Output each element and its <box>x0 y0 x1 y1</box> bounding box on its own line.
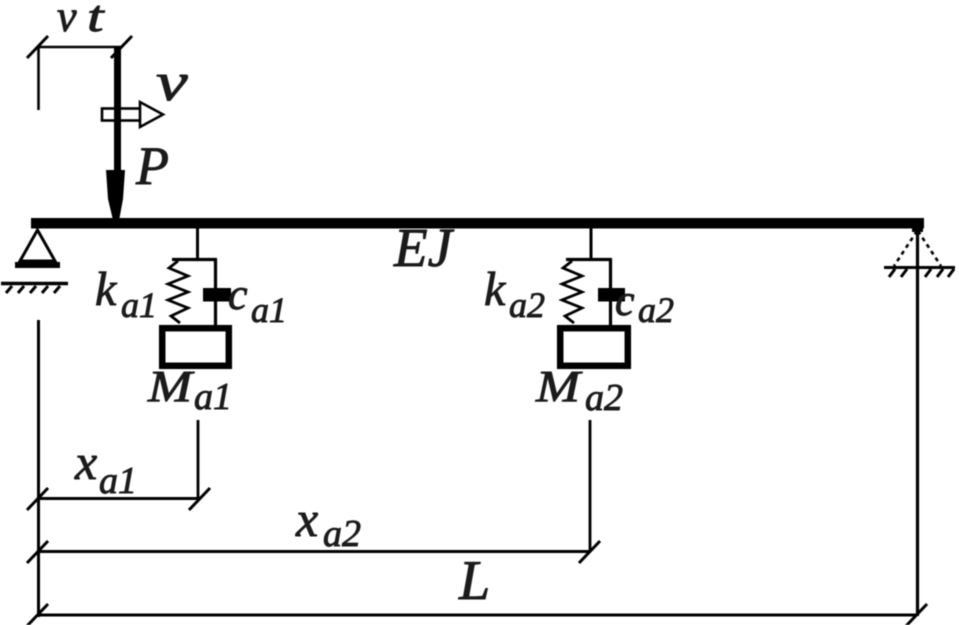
svg-text:a1: a1 <box>99 460 137 502</box>
tick left end x_a2 <box>27 541 48 563</box>
svg-text:a2: a2 <box>638 290 674 330</box>
label P <box>135 136 169 196</box>
beam EJ <box>31 218 924 232</box>
absorber 2 top bar <box>566 258 612 261</box>
right support ground line <box>884 266 955 269</box>
right support extension line to L dimension <box>916 228 919 616</box>
right support triangle (dotted) <box>894 231 941 266</box>
tick left end x_a1 <box>27 488 48 510</box>
svg-text:a1: a1 <box>121 285 157 325</box>
svg-text:t: t <box>87 0 105 41</box>
svg-text:a2: a2 <box>585 377 623 419</box>
right support ground hatching <box>889 269 954 277</box>
damper c_a1 rod <box>214 259 217 326</box>
damper c_a2 body <box>598 288 625 302</box>
label x_a2 <box>295 491 361 555</box>
svg-text:c: c <box>228 270 248 319</box>
svg-text:v: v <box>57 0 77 41</box>
svg-text:v: v <box>156 52 189 112</box>
damper c_a2 rod <box>609 259 612 326</box>
svg-text:k: k <box>95 263 118 316</box>
label c_a2 <box>615 276 674 330</box>
label k_a2 <box>484 263 545 325</box>
load line of P <box>114 48 121 172</box>
tick right end x_a1 <box>189 488 210 510</box>
svg-text:a2: a2 <box>509 285 545 325</box>
spring k_a2 <box>562 261 582 323</box>
dimension line L <box>38 614 917 617</box>
mass M_a2 block <box>560 328 628 366</box>
tick right end L <box>906 604 927 625</box>
mass M_a1 block <box>162 328 229 366</box>
label v t <box>57 0 105 41</box>
left extension line for bottom dimensions <box>37 320 40 617</box>
label c_a1 <box>228 270 287 330</box>
absorber 1 extension line to x_a1 dimension <box>197 420 200 499</box>
svg-text:a1: a1 <box>251 290 287 330</box>
extension line left of v t dimension <box>37 47 40 110</box>
left support ground line <box>1 282 68 286</box>
label M_a1 <box>147 362 232 418</box>
absorber 2 attach line <box>590 228 593 260</box>
svg-text:k: k <box>484 263 507 316</box>
tick right end x_a2 <box>579 541 600 563</box>
load P arrowhead <box>106 170 125 218</box>
svg-text:x: x <box>74 434 97 490</box>
damper c_a1 body <box>203 288 231 302</box>
svg-text:P: P <box>135 136 169 196</box>
dimension line x_a2 <box>38 550 590 553</box>
tick left end L <box>27 604 48 625</box>
svg-text:c: c <box>615 276 635 325</box>
velocity arrow v (hollow) <box>102 102 163 127</box>
label EJ <box>393 217 455 278</box>
label L <box>458 550 490 612</box>
svg-text:a2: a2 <box>323 513 361 555</box>
dimension line x_a1 <box>38 497 200 500</box>
absorber 2 extension line to x_a2 dimension <box>589 420 592 552</box>
absorber 1 top bar <box>172 258 217 261</box>
label M_a2 <box>535 362 623 419</box>
svg-text:M: M <box>147 362 195 411</box>
tick left end of v t dimension <box>27 36 48 58</box>
left support ground hatching <box>6 286 60 293</box>
tick right end of v t dimension <box>111 36 132 58</box>
left support pin triangle <box>15 230 60 265</box>
label k_a1 <box>95 263 157 325</box>
absorber 1 attach line <box>196 228 199 260</box>
label v <box>156 52 189 112</box>
dimension line v t <box>37 46 122 49</box>
svg-text:M: M <box>535 362 583 411</box>
spring k_a1 <box>168 261 188 323</box>
svg-text:L: L <box>458 550 490 612</box>
svg-text:x: x <box>295 491 318 547</box>
svg-text:EJ: EJ <box>393 217 455 278</box>
label x_a1 <box>74 434 137 502</box>
svg-text:a1: a1 <box>194 376 232 418</box>
